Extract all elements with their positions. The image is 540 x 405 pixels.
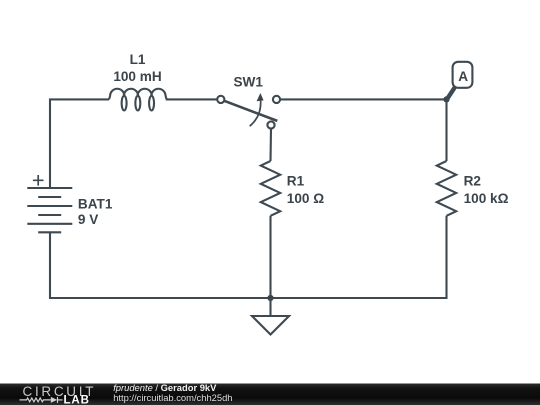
footer bar <box>0 382 540 405</box>
svg-text:L1: L1 <box>130 52 146 67</box>
svg-text:http://circuitlab.com/chh25dh: http://circuitlab.com/chh25dh <box>113 392 232 403</box>
battery BAT1 <box>27 188 72 232</box>
svg-text:BAT1: BAT1 <box>78 197 113 212</box>
ground junction dot <box>267 295 273 301</box>
wire R1 to bottom rail <box>269 216 271 298</box>
ammeter probe A <box>447 62 472 99</box>
svg-text:R2: R2 <box>464 174 482 189</box>
svg-text:LAB: LAB <box>64 395 90 405</box>
resistor R1 <box>261 161 280 216</box>
plus sign <box>33 175 44 186</box>
wire inductor to switch <box>167 98 217 100</box>
ground <box>252 298 289 335</box>
wire switch to node A and down to R2 <box>280 99 446 161</box>
wire left vertical top (battery + to corner) <box>50 99 109 188</box>
svg-text:100 Ω: 100 Ω <box>287 191 324 206</box>
wire battery - to bottom rail and up to R2 <box>50 216 447 298</box>
svg-text:A: A <box>458 69 468 84</box>
wire switch pole down to R1 <box>269 129 272 161</box>
svg-text:100 kΩ: 100 kΩ <box>464 191 509 206</box>
logo resistor-diode glyph <box>20 397 63 403</box>
svg-text:SW1: SW1 <box>233 75 263 90</box>
svg-text:100 mH: 100 mH <box>113 69 161 84</box>
resistor R2 <box>437 161 456 216</box>
node junction dot (ammeter tap) <box>443 96 449 102</box>
svg-text:R1: R1 <box>287 174 305 189</box>
inductor L1 <box>109 89 167 111</box>
switch SW1 <box>217 93 280 129</box>
svg-text:9 V: 9 V <box>78 212 98 227</box>
